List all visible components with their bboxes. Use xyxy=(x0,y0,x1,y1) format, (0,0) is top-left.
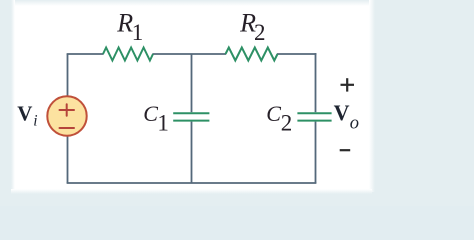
wire: bottom rail xyxy=(67,182,317,184)
capacitor C1 xyxy=(173,113,209,120)
wire: left vertical branch through source xyxy=(67,54,69,183)
output plus terminal xyxy=(341,78,355,91)
wire: middle vertical branch lower (C1 to bottom rail) xyxy=(191,122,193,183)
svg-text:i: i xyxy=(33,113,37,130)
svg-text:V: V xyxy=(17,102,32,126)
svg-text:1: 1 xyxy=(132,20,144,45)
svg-text:C: C xyxy=(266,101,281,126)
svg-text:C: C xyxy=(143,101,158,126)
voltage source minus sign xyxy=(60,127,75,129)
wire: top rail right segment (R2 to top-right corner) xyxy=(277,53,316,55)
wire: top rail left segment (corner to R1) xyxy=(67,53,104,55)
wire: middle vertical branch upper (top rail node to C1) xyxy=(191,54,193,112)
output minus terminal xyxy=(340,149,351,151)
svg-text:1: 1 xyxy=(157,111,169,136)
wire: top rail middle segment (R1 to R2) xyxy=(153,53,227,55)
resistor R1 xyxy=(103,48,153,61)
wire: right vertical branch lower (C2 to bottom rail) xyxy=(315,122,317,183)
svg-text:o: o xyxy=(350,113,359,133)
voltage source Vi circle xyxy=(47,96,86,135)
svg-text:2: 2 xyxy=(254,20,266,45)
svg-text:V: V xyxy=(334,100,350,125)
white canvas panel xyxy=(11,0,372,192)
capacitor C2 xyxy=(297,113,331,120)
voltage source plus sign xyxy=(60,104,75,116)
svg-text:2: 2 xyxy=(281,111,293,136)
resistor R2 xyxy=(226,48,278,61)
wire: right vertical branch upper (corner to C2) xyxy=(315,53,317,112)
